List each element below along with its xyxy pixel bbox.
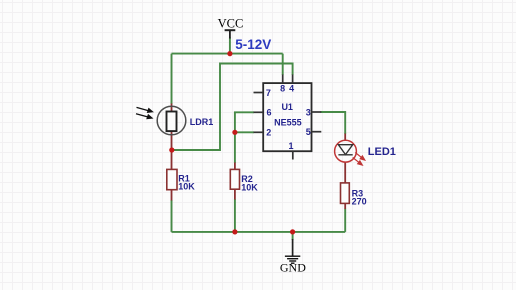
svg-text:U1: U1 — [281, 102, 293, 112]
svg-text:4: 4 — [289, 83, 294, 93]
svg-text:5: 5 — [306, 127, 311, 137]
svg-text:2: 2 — [266, 128, 271, 138]
svg-text:LDR1: LDR1 — [190, 117, 214, 127]
svg-text:10K: 10K — [178, 182, 195, 192]
svg-text:6: 6 — [266, 108, 271, 118]
svg-text:NE555: NE555 — [274, 117, 302, 127]
svg-text:1: 1 — [288, 141, 293, 151]
svg-text:7: 7 — [266, 88, 271, 98]
svg-text:10K: 10K — [241, 183, 258, 193]
svg-text:LED1: LED1 — [368, 146, 396, 158]
svg-text:270: 270 — [352, 197, 367, 207]
svg-text:5-12V: 5-12V — [235, 37, 271, 52]
svg-text:GND: GND — [280, 261, 306, 275]
svg-text:8: 8 — [280, 83, 285, 93]
svg-text:3: 3 — [306, 108, 311, 118]
svg-text:VCC: VCC — [218, 17, 244, 31]
